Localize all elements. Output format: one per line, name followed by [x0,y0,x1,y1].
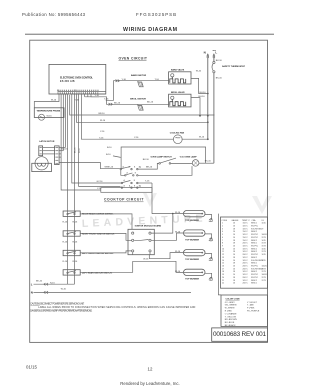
svg-text:COOLING FAN: COOLING FAN [170,131,185,134]
svg-text:W-16: W-16 [51,100,57,102]
wire fan feed x84.6 [81,94,173,139]
svg-text:W-16: W-16 [143,258,149,260]
svg-text:16: 16 [233,226,235,228]
svg-text:R-16: R-16 [73,261,78,263]
svg-text:3173: 3173 [262,277,266,279]
color code box [221,295,268,327]
svg-text:17: 17 [222,268,224,270]
svg-text:8: 8 [222,243,223,245]
svg-text:R-16: R-16 [50,282,55,284]
svg-text:LATCH MOTOR: LATCH MOTOR [39,140,55,143]
svg-text:18: 18 [233,263,235,265]
wire code table [221,217,268,288]
svg-text:6: 6 [222,237,223,239]
svg-text:BK-18: BK-18 [75,148,77,153]
svg-text:7: 7 [222,240,223,242]
svg-text:SEW-1: SEW-1 [251,283,257,285]
ground return vertical [218,214,221,295]
cooktop supply terminal L [31,281,75,287]
svg-text:SR-PVC: SR-PVC [251,277,259,279]
svg-text:BU -BLUE: BU -BLUE [225,322,235,324]
svg-text:16: 16 [233,254,235,256]
wire latch x65.4 [64,94,66,148]
wire verticals from U1 pins [34,94,214,284]
bus wire labels [63,222,78,263]
svg-text:IGNITOR MODULE BOARD: IGNITOR MODULE BOARD [135,224,162,227]
oven circuit title [119,56,148,60]
svg-text:18: 18 [233,271,235,273]
svg-text:1015: 1015 [262,223,266,225]
svg-text:W-16: W-16 [47,115,53,117]
svg-text:16: 16 [233,283,235,285]
svg-text:9: 9 [222,246,223,248]
svg-text:Y -YELLOW: Y -YELLOW [225,316,236,318]
svg-text:200°C: 200°C [243,254,249,256]
door switch row A [59,159,159,170]
svg-text:10: 10 [222,248,224,250]
svg-text:BROIL VALVE: BROIL VALVE [171,91,185,94]
svg-text:SEW-1: SEW-1 [251,243,257,245]
svg-text:18: 18 [233,257,235,259]
svg-text:150°C: 150°C [243,240,249,242]
svg-text:SEW-2: SEW-2 [251,257,257,259]
svg-text:105°C: 105°C [243,248,249,250]
ignitor switch SW2 right front [63,231,132,241]
oven lamp switch [151,156,193,165]
svg-text:(A): (A) [139,165,142,168]
svg-text:4: 4 [222,231,223,233]
svg-text:18: 18 [233,240,235,242]
oven lamp DS1 [180,156,214,167]
door switch row C [121,179,152,184]
svg-text:SR-PVC: SR-PVC [251,254,259,256]
svg-text:GAUGE: GAUGE [232,219,240,222]
svg-text:BK-16: BK-16 [205,160,212,162]
svg-text:L: L [215,51,217,55]
svg-text:10020: 10020 [262,234,267,236]
svg-text:3173: 3173 [262,251,266,253]
svg-text:14: 14 [233,274,235,276]
svg-text:Publication No: 5995656443: Publication No: 5995656443 [22,12,86,17]
door switch row D housing [101,183,152,214]
svg-text:CODE: CODE [222,220,228,222]
svg-text:SR-PVC: SR-PVC [251,274,259,276]
svg-text:OVEN LAMP SWITCH: OVEN LAMP SWITCH [151,156,173,159]
svg-text:3173: 3173 [262,243,266,245]
svg-text:W-16: W-16 [175,231,181,233]
svg-text:BU-16: BU-16 [147,101,154,103]
svg-text:SEW-2: SEW-2 [251,240,257,242]
svg-text:18: 18 [233,280,235,282]
svg-text:105°C: 105°C [243,274,249,276]
svg-text:PU -PURPLE: PU -PURPLE [247,311,260,313]
svg-text:10020: 10020 [262,274,267,276]
svg-text:105°C: 105°C [243,251,249,253]
svg-text:L: L [31,282,33,286]
svg-text:W-16: W-16 [196,71,202,73]
svg-text:TOP BURNER: TOP BURNER [185,220,199,222]
svg-text:16: 16 [233,237,235,239]
svg-text:01/15: 01/15 [26,365,38,370]
supply terminal L [213,51,218,164]
svg-text:16: 16 [233,248,235,250]
svg-text:19: 19 [222,274,224,276]
svg-text:R-16: R-16 [63,242,68,244]
svg-text:TOP BURNER: TOP BURNER [185,279,199,281]
svg-text:W-16: W-16 [199,137,205,139]
svg-text:3173: 3173 [262,246,266,248]
svg-text:BU-16: BU-16 [114,102,121,104]
svg-text:TOP BURNER: TOP BURNER [185,259,199,261]
svg-text:18: 18 [222,271,224,273]
svg-text:105°C: 105°C [243,228,249,230]
svg-text:W-18: W-18 [79,149,81,153]
ignitor switch SW3 left front [63,250,132,255]
wire BR-16 to N x69.7 [70,95,215,115]
svg-text:(A): (A) [139,185,142,188]
svg-text:16: 16 [222,266,224,268]
svg-text:3: 3 [222,228,223,230]
svg-text:16: 16 [233,246,235,248]
wire broil feed x91 [91,94,99,97]
wires J2 to bundle [59,147,65,149]
svg-text:BR-16: BR-16 [99,113,106,115]
svg-text:3173: 3173 [262,271,266,273]
op: electronic oven control U1 [49,64,106,94]
svg-text:N: N [204,51,206,55]
svg-text:150°C: 150°C [243,231,249,233]
ignitor switch SW4 left rear [63,261,133,275]
svg-text:TEMPERATURE PROBE: TEMPERATURE PROBE [37,109,61,112]
svg-text:BK-16: BK-16 [216,77,223,79]
cooktop neutral terminal N [31,289,191,295]
svg-text:W-16: W-16 [175,212,181,214]
wire W-16 to L x76.4 [76,94,207,122]
svg-text:FFGS3025PSB: FFGS3025PSB [136,12,176,17]
svg-text:R-16: R-16 [63,261,68,263]
svg-text:WIRING DIAGRAM: WIRING DIAGRAM [123,27,178,33]
svg-text:1015: 1015 [262,254,266,256]
cooling fan M2 [170,131,208,143]
svg-text:SEW-2: SEW-2 [251,271,257,273]
ignitor switch SW1 right rear [63,211,132,229]
svg-text:3173: 3173 [262,237,266,239]
svg-text:DANGEROUS OPERATION. VERIFY PR: DANGEROUS OPERATION. VERIFY PROPER OPERA… [30,309,92,312]
latch housing box [32,163,52,171]
svg-text:SEW-1: SEW-1 [251,263,257,265]
svg-text:1015: 1015 [262,260,266,262]
svg-text:ES 300 A/B: ES 300 A/B [60,80,75,83]
svg-text:3173: 3173 [262,268,266,270]
svg-text:105°C: 105°C [243,257,249,259]
svg-text:BU-16: BU-16 [62,148,69,150]
revision box [212,328,268,341]
svg-text:1015: 1015 [262,240,266,242]
svg-text:11: 11 [222,251,224,253]
svg-text:BAKE VALVE: BAKE VALVE [171,69,185,72]
svg-text:200°C: 200°C [243,243,249,245]
svg-text:W/BK-16: W/BK-16 [105,167,114,169]
svg-text:18: 18 [233,251,235,253]
svg-text:16: 16 [233,268,235,270]
svg-text:R-16: R-16 [73,222,78,224]
svg-text:LABEL ALL WIRES PRIOR TO DISCO: LABEL ALL WIRES PRIOR TO DISCONNECTION W… [38,306,195,309]
svg-text:LEFT REAR IGNITOR SWITCH.: LEFT REAR IGNITOR SWITCH. [82,271,113,274]
svg-text:SR-PVC: SR-PVC [251,234,259,236]
svg-text:00010683 REV 001: 00010683 REV 001 [213,331,266,338]
burner 1 top burner [175,211,213,223]
svg-text:2: 2 [222,226,223,228]
node dots oven section [199,93,209,141]
temperature probe box [34,108,64,120]
svg-text:16: 16 [233,234,235,236]
svg-text:105°C: 105°C [243,260,249,262]
svg-text:W-16: W-16 [175,251,181,253]
svg-text:3173: 3173 [262,280,266,282]
svg-text:16: 16 [233,260,235,262]
wire x87.8 short [85,94,88,97]
svg-text:10020: 10020 [262,266,267,268]
svg-text:SEW-2: SEW-2 [251,248,257,250]
svg-text:SAFETY THERMOSTAT: SAFETY THERMOSTAT [222,65,246,68]
door switch row B [121,166,192,176]
svg-text:1: 1 [222,223,223,225]
diagram frame [30,40,268,342]
motor M circle [35,157,48,170]
svg-text:SR-PVC: SR-PVC [251,246,259,248]
burner 3 top burner [175,250,213,262]
svg-text:1015: 1015 [262,248,266,250]
caution note [30,302,195,312]
svg-text:BK-16: BK-16 [36,281,43,283]
svg-text:TOP BURNER: TOP BURNER [185,239,199,241]
svg-text:SGI./SE BNDT: SGI./SE BNDT [251,228,264,230]
svg-text:BAKE IGNITOR: BAKE IGNITOR [131,74,147,77]
svg-text:16: 16 [233,223,235,225]
svg-text:OVEN CIRCUIT: OVEN CIRCUIT [119,56,148,60]
svg-text:BK-16: BK-16 [216,60,223,62]
wire latch x63.3 [62,94,64,151]
svg-text:105°C: 105°C [243,234,249,236]
supply terminal N [204,51,210,140]
svg-text:14: 14 [222,260,224,262]
burner 2 top burner [175,230,213,242]
svg-text:105°C: 105°C [243,271,249,273]
svg-text:105°C: 105°C [243,226,249,228]
svg-text:13: 13 [222,257,224,259]
safety thermostat TH1 [196,60,246,79]
svg-text:SR-PVC: SR-PVC [251,237,259,239]
svg-text:16: 16 [233,231,235,233]
connector J2 6pin [55,146,60,165]
callout leader [113,156,121,158]
lamp return loop [121,147,206,169]
svg-text:18: 18 [233,277,235,279]
svg-text:SR-PVC: SR-PVC [251,226,259,228]
svg-text:SR-PVC: SR-PVC [251,266,259,268]
svg-text:UL: UL [262,220,264,222]
latch motor assembly [32,140,81,172]
svg-text:R-16: R-16 [63,222,68,224]
svg-text:Rendered by LeadVenture, Inc.: Rendered by LeadVenture, Inc. [120,381,179,386]
svg-text:16: 16 [233,266,235,268]
svg-text:200°C: 200°C [243,268,249,270]
svg-text:200°C: 200°C [243,263,249,265]
wire temp probe drop x59 [34,94,59,108]
wire row D feed x61.1 [61,94,101,190]
svg-text:CAUTION:DISCONNECT POWER BEFOR: CAUTION:DISCONNECT POWER BEFORE SERVICIN… [30,302,84,305]
svg-text:200°C: 200°C [243,277,249,279]
svg-text:TEMP °C: TEMP °C [242,220,250,222]
svg-text:105°C: 105°C [243,280,249,282]
svg-text:20: 20 [222,277,224,279]
svg-text:GY-16: GY-16 [97,181,104,183]
U1 right exit to bake row [85,80,169,106]
svg-text:BK-16: BK-16 [143,159,150,161]
wire row D contacts feed x78.6 [79,94,121,186]
bake valve [169,69,208,98]
svg-text:BK -BLACK: BK -BLACK [225,324,236,327]
svg-text:BR-16: BR-16 [146,167,153,169]
svg-text:V -VIOLET: V -VIOLET [247,302,258,304]
svg-text:200°C: 200°C [243,283,249,285]
svg-text:W-16: W-16 [175,271,181,273]
svg-text:ELECTRONIC OVEN CONTROL: ELECTRONIC OVEN CONTROL [60,77,94,80]
svg-text:BR -BROWN: BR -BROWN [225,319,237,321]
broil valve [169,91,200,116]
svg-text:W -WHITE: W -WHITE [225,308,235,310]
broil ignitor [114,99,154,111]
svg-text:N: N [31,291,33,295]
svg-text:18: 18 [233,228,235,230]
watermark logo V [143,193,157,207]
burner 4 top burner [175,269,213,281]
svg-text:150°C: 150°C [243,237,249,239]
svg-text:COOKTOP CIRCUIT: COOKTOP CIRCUIT [104,198,144,202]
svg-text:O -ORANGE: O -ORANGE [225,312,237,315]
svg-text:SEW-2: SEW-2 [251,231,257,233]
svg-text:21: 21 [222,280,224,282]
svg-text:SEW-2: SEW-2 [251,280,257,282]
wire GY-16 row C feed x71.8 [72,94,121,183]
svg-text:18: 18 [233,243,235,245]
svg-text:W-16: W-16 [61,289,67,291]
svg-text:COLOR CODE: COLOR CODE [226,298,241,300]
watermark logo V2 [252,196,272,214]
svg-text:GY -GREY: GY -GREY [225,302,236,304]
svg-text:GN -GREEN: GN -GREEN [225,305,237,307]
svg-text:5: 5 [222,234,223,236]
module to burner wires [133,214,183,273]
svg-text:22: 22 [222,283,224,285]
svg-text:200°C: 200°C [243,266,249,268]
cooktop circuit title [104,198,144,202]
svg-text:P -PINK: P -PINK [247,308,255,310]
wire right bus x74.5 [74,94,76,284]
svg-text:SEW-1: SEW-1 [251,223,257,225]
ignitor module board [128,224,162,260]
wires between connectors [43,147,55,149]
svg-text:12: 12 [148,366,153,371]
svg-text:BROIL IGNITOR: BROIL IGNITOR [130,99,146,101]
svg-text:R-16: R-16 [73,242,78,244]
connector pin strip of U1 [58,92,106,94]
wire labels left column [51,100,139,191]
header rule [25,33,274,35]
svg-text:12: 12 [222,254,224,256]
svg-text:T -TAN: T -TAN [247,304,254,307]
svg-text:T-16 OVEN LAMP: T-16 OVEN LAMP [180,156,198,159]
bake ignitor [131,74,160,87]
svg-text:15: 15 [222,263,224,265]
svg-text:105°C: 105°C [243,246,249,248]
svg-text:BU-16: BU-16 [200,92,207,94]
svg-text:SEW-2: SEW-2 [251,251,257,253]
svg-text:W-16: W-16 [100,120,106,122]
connector J1 3pin [39,146,43,156]
wire left bus x67.5 [67,94,69,284]
svg-text:150°C: 150°C [243,223,249,225]
svg-text:R -RED: R -RED [225,311,233,313]
